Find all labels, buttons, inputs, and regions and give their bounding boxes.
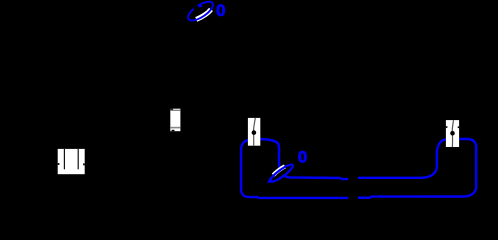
current loop annotation A2 (corner): blue ellipse arrow with white halo arc (267, 162, 295, 184)
capacitor C1 (left, white halo, curved plate, junction dot) (248, 118, 260, 146)
capacitor C2 (right, white halo, curved plate, junction dot, wire notches) (446, 120, 459, 147)
svg-text:0: 0 (216, 1, 225, 20)
wire: outer blue loop (left capacitor left terminal, down, along bottom, up to right capacitor right terminal) (241, 139, 476, 198)
current loop annotation A1 (top): blue ellipse arrow with white halo band (185, 0, 216, 24)
svg-text:0: 0 (298, 148, 307, 167)
battery V1 (white halo, two vertical plates, wire notches left/right) (58, 149, 85, 174)
wire: inner blue branch (left capacitor right terminal, down through current marker, right, up to right capacitor left terminal) (260, 139, 448, 179)
resistor R1 (vertical, white halo body) (170, 109, 180, 132)
